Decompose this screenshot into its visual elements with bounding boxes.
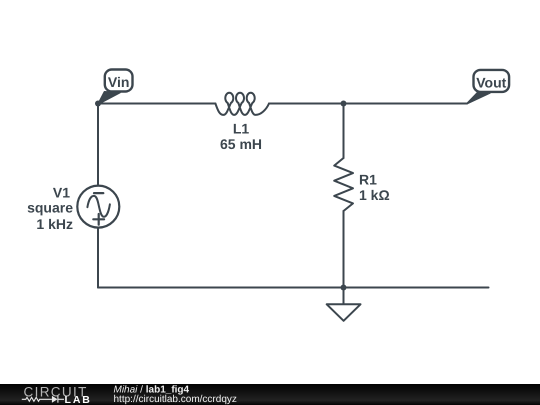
wire top left (Vin node to L1) (98, 103, 215, 105)
wire left rail top (Vin to V1) (97, 104, 99, 186)
svg-text:L1: L1 (233, 121, 250, 137)
wire bottom rail (98, 287, 489, 289)
svg-text:65 mH: 65 mH (220, 136, 262, 152)
svg-text:Vout: Vout (476, 75, 506, 91)
label L1 value 65 mH (220, 121, 262, 153)
node Vout (467, 70, 509, 104)
svg-text:square: square (27, 200, 73, 216)
junction dot top (R1 tap) (341, 101, 347, 107)
footer bar (0, 384, 540, 405)
inductor L1 (215, 93, 269, 115)
node Vin (95, 70, 133, 107)
resistor R1 (334, 158, 353, 211)
wire R1 bottom lead (343, 211, 345, 288)
svg-text:1 kΩ: 1 kΩ (359, 187, 390, 203)
ground (327, 304, 361, 321)
svg-text:R1: R1 (359, 172, 377, 188)
svg-text:LAB: LAB (65, 394, 92, 405)
voltage source V1 (77, 186, 119, 228)
wire R1 top lead (343, 104, 345, 159)
wire ground stub (343, 288, 345, 305)
svg-text:1 kHz: 1 kHz (36, 216, 73, 232)
svg-text:http://circuitlab.com/ccrdqyz: http://circuitlab.com/ccrdqyz (114, 394, 237, 405)
label V1 square 1 kHz (27, 185, 73, 232)
label R1 value 1 kOhm (359, 172, 390, 204)
wire top right (L1 to Vout node) (269, 103, 467, 105)
svg-text:Vin: Vin (108, 74, 130, 90)
svg-text:V1: V1 (53, 185, 70, 201)
CircuitLab logo (0, 384, 100, 405)
wire left rail bottom (V1 to bottom rail) (97, 228, 99, 288)
junction dot bottom (ground tap) (341, 285, 347, 291)
